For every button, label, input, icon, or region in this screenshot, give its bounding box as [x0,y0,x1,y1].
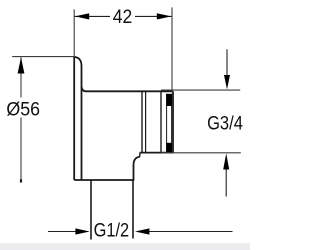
G3/4 down arrow line [226,49,228,76]
G1/2 right arrowhead [135,228,149,234]
diameter up arrowhead [18,57,25,73]
connector groove vertical 2 [145,91,147,152]
svg-text:42: 42 [113,5,133,27]
thread shoulder vertical [160,91,162,152]
G1/2 dimension line left [48,231,76,233]
svg-text:G3/4: G3/4 [207,112,243,134]
connector bottom line [140,152,173,154]
thread crest band top [166,94,172,106]
G3/4 up arrow line [225,168,227,197]
42 dim left extension line [73,9,75,57]
diameter dim line end tick [20,179,22,182]
outlet pipe right edge [132,180,134,239]
connector end face [172,91,174,152]
svg-text:Ø56: Ø56 [6,98,40,120]
body bottom and corner to down pipe [134,157,141,180]
bottom page band [0,243,250,250]
G1/2 dimension line right [149,231,233,233]
42 left arrowhead [75,13,89,19]
diameter dim extension line [12,56,74,58]
thread root line left [166,94,168,153]
G3/4 top extension line [161,89,240,91]
outlet pipe left edge [90,180,92,240]
underside line [74,179,134,181]
42 dim right extension line [171,7,173,91]
svg-text:G1/2: G1/2 [94,219,130,241]
G3/4 down arrowhead [224,75,230,89]
thread root line right [171,94,173,153]
42 dimension line [75,15,172,17]
body end shoulder below connector [139,153,141,157]
body top line with fillet at flange [82,87,174,92]
wall / flange back edge [73,57,75,180]
42 right arrowhead [157,13,171,19]
connector groove vertical 1 [141,91,143,152]
G3/4 up arrowhead [223,153,229,169]
flange outline (top rounded corner + front face) [74,57,81,180]
thread crest band bottom [166,143,172,153]
diameter dimension line [20,57,22,182]
G1/2 left arrowhead [75,228,89,234]
G3/4 bottom extension line [161,152,241,154]
